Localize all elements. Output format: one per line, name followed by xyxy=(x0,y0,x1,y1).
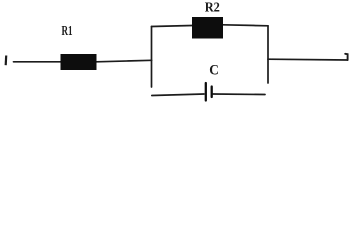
terminal left xyxy=(5,56,8,66)
resistor R1 xyxy=(61,54,97,70)
resistor R2 xyxy=(192,17,223,39)
wire xyxy=(268,58,348,61)
svg-text:R2: R2 xyxy=(205,1,220,16)
svg-text:R1: R1 xyxy=(62,24,73,39)
wire xyxy=(14,61,62,63)
wire xyxy=(223,25,268,26)
wire xyxy=(151,60,153,87)
wire xyxy=(213,93,265,96)
wire xyxy=(152,94,204,96)
svg-text:C: C xyxy=(209,63,219,79)
wire xyxy=(151,27,153,61)
wire xyxy=(152,26,193,27)
terminal right xyxy=(345,54,347,60)
wire xyxy=(267,26,269,83)
wire xyxy=(97,60,152,62)
capacitor C xyxy=(206,83,212,101)
